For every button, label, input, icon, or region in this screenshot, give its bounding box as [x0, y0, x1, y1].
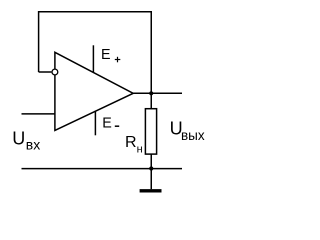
svg-text:вых: вых — [181, 128, 205, 143]
inversion bubble — [52, 69, 58, 75]
wire resistor to rail — [150, 154, 152, 169]
wire feedback left vertical — [38, 11, 40, 72]
node output junction — [149, 91, 153, 95]
svg-text:вх: вх — [26, 137, 40, 153]
svg-text:E: E — [101, 47, 111, 63]
node rail junction — [149, 166, 153, 170]
svg-text:E: E — [102, 116, 112, 132]
ground — [140, 189, 162, 192]
svg-text:R: R — [125, 134, 137, 151]
wire bottom rail — [22, 168, 183, 170]
wire ground stem — [150, 169, 152, 190]
wire feedback top — [39, 11, 152, 13]
resistor RH — [145, 109, 156, 154]
svg-text:н: н — [137, 143, 143, 155]
svg-text:U: U — [12, 128, 25, 148]
wire op-amp output — [133, 92, 182, 94]
op-amp U1 — [55, 52, 133, 130]
pin E- — [94, 111, 96, 136]
pin E+ — [92, 45, 94, 72]
wire right branch upper — [150, 11, 152, 109]
wire non-inverting input — [22, 113, 55, 115]
wire feedback to inverting input — [39, 71, 52, 73]
